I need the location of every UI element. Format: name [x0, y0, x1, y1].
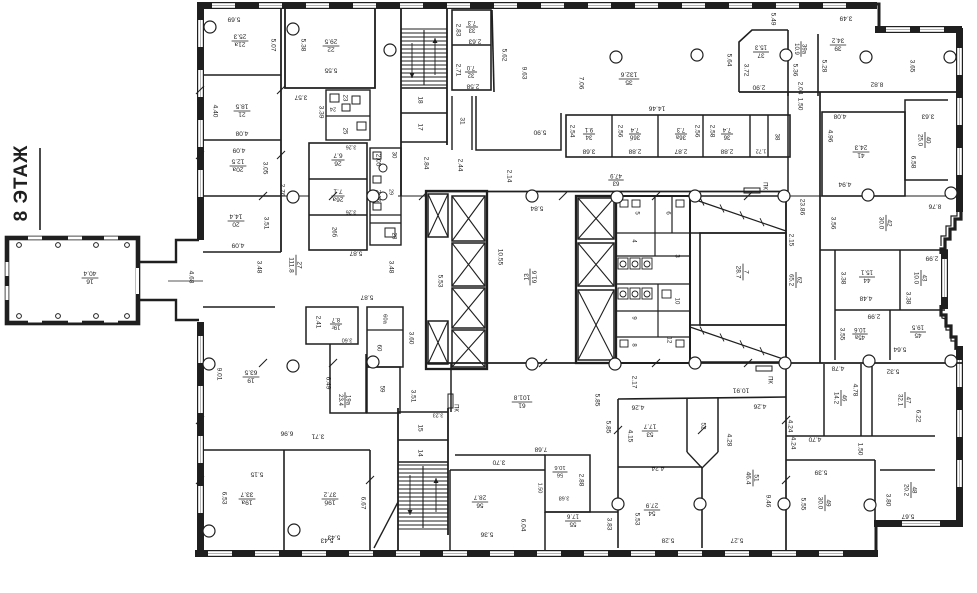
svg-text:6.22: 6.22 — [914, 410, 921, 423]
svg-text:30: 30 — [390, 152, 396, 159]
corridor 61 north wall — [426, 362, 963, 364]
svg-text:55: 55 — [569, 521, 576, 528]
svg-text:34.2: 34.2 — [831, 37, 844, 44]
svg-text:8.7: 8.7 — [331, 316, 340, 322]
svg-text:28: 28 — [390, 233, 396, 240]
room 21 label — [234, 102, 251, 117]
svg-text:3.57: 3.57 — [294, 93, 307, 100]
ramp upper outline — [690, 196, 786, 233]
outer wall left upper — [197, 8, 204, 240]
wc core walls — [616, 196, 690, 363]
svg-text:5.87: 5.87 — [349, 249, 362, 256]
svg-text:25.3: 25.3 — [233, 32, 246, 39]
rooms 26 block walls — [309, 143, 367, 250]
svg-text:36а: 36а — [675, 134, 686, 140]
svg-text:25.0: 25.0 — [917, 134, 924, 147]
svg-text:28.7: 28.7 — [473, 494, 486, 501]
annex room 16 column dots — [17, 243, 130, 319]
svg-text:35: 35 — [625, 79, 633, 86]
svg-text:59: 59 — [378, 386, 385, 393]
elevator shaft L1 — [428, 194, 448, 237]
room 49 label — [817, 495, 832, 511]
svg-text:23: 23 — [341, 95, 347, 102]
svg-text:32: 32 — [467, 72, 474, 78]
svg-text:4.09: 4.09 — [232, 146, 245, 153]
corridor 61 label — [512, 393, 532, 408]
svg-text:111.8: 111.8 — [287, 257, 294, 273]
svg-text:26: 26 — [334, 160, 342, 167]
svg-text:3.39: 3.39 — [317, 106, 324, 119]
svg-text:6.58: 6.58 — [909, 156, 916, 169]
outer wall right recess — [941, 250, 948, 309]
svg-text:43: 43 — [921, 275, 928, 282]
passage lower wall — [138, 300, 199, 320]
outer wall top — [197, 2, 877, 9]
svg-text:5.49: 5.49 — [769, 13, 776, 26]
svg-text:5.36: 5.36 — [791, 64, 798, 77]
svg-text:5.87: 5.87 — [360, 293, 373, 300]
room 22 walls — [285, 8, 375, 88]
outer wall sawtooth upper — [941, 212, 961, 254]
room 19 label — [243, 368, 260, 383]
room 19g label — [330, 316, 342, 330]
svg-text:2.88: 2.88 — [720, 147, 733, 154]
svg-text:10.6: 10.6 — [554, 464, 565, 470]
svg-text:7: 7 — [743, 270, 750, 274]
room 19b label — [322, 490, 339, 506]
room 47 label — [897, 392, 912, 408]
svg-text:26а: 26а — [332, 196, 343, 203]
outer wall bottom-right step — [875, 523, 878, 552]
outer wall top right section — [875, 26, 962, 33]
room 36a label — [675, 126, 687, 140]
room 21a label — [232, 32, 249, 47]
svg-text:2.99: 2.99 — [925, 254, 938, 261]
svg-text:17.7: 17.7 — [643, 423, 656, 430]
svg-text:9.01: 9.01 — [215, 368, 222, 381]
svg-text:ПК: ПК — [766, 376, 772, 384]
svg-text:2.41: 2.41 — [314, 316, 321, 329]
room 53 label — [642, 423, 658, 438]
elevator shaft L4 — [452, 288, 485, 328]
svg-text:7.1: 7.1 — [333, 187, 342, 194]
ramp lower outline — [690, 325, 786, 362]
svg-text:7.4: 7.4 — [630, 126, 639, 132]
svg-text:4.70: 4.70 — [808, 435, 821, 442]
svg-text:21а: 21а — [234, 41, 245, 48]
svg-text:6.04: 6.04 — [519, 519, 526, 532]
room 58 walls — [545, 455, 590, 512]
svg-text:3.70: 3.70 — [492, 458, 505, 465]
svg-text:10.55: 10.55 — [496, 249, 503, 266]
svg-text:25: 25 — [341, 128, 347, 135]
wc stalls upper — [618, 258, 652, 269]
floor title 8 ETAZh — [11, 145, 40, 230]
room 58 label — [553, 464, 568, 478]
room 49 walls — [786, 459, 875, 461]
svg-text:4.24: 4.24 — [786, 420, 793, 433]
rooms 23-25 walls — [326, 90, 370, 140]
room 18 walls — [401, 87, 447, 89]
svg-text:ПК: ПК — [761, 182, 767, 190]
svg-text:63.5: 63.5 — [244, 368, 257, 375]
svg-text:54: 54 — [648, 510, 656, 517]
svg-text:2.54: 2.54 — [568, 125, 575, 138]
svg-text:1.50: 1.50 — [537, 483, 543, 494]
room 16 label — [82, 269, 99, 284]
lobby 13 label — [523, 269, 538, 286]
room 52 walls — [687, 397, 718, 468]
svg-text:132.6: 132.6 — [620, 70, 637, 77]
room 19a33 label — [239, 490, 256, 505]
room 56 label — [472, 494, 488, 509]
room 26a label — [331, 187, 344, 202]
svg-text:19.5: 19.5 — [911, 324, 924, 331]
svg-text:23.86: 23.86 — [798, 199, 805, 216]
svg-text:5.84: 5.84 — [530, 204, 543, 211]
elevator shaft L2 — [452, 196, 485, 241]
svg-text:6.49: 6.49 — [324, 377, 331, 390]
svg-text:2.90: 2.90 — [752, 83, 765, 90]
svg-text:6.7: 6.7 — [333, 151, 342, 158]
rooms 21a-20 east wall — [280, 8, 282, 252]
svg-text:2.14: 2.14 — [505, 170, 512, 183]
svg-text:40: 40 — [925, 137, 932, 144]
rooms 29-30 walls — [370, 148, 401, 245]
elevator shaft L3 — [452, 243, 485, 286]
svg-text:13: 13 — [523, 273, 530, 281]
svg-text:3.55: 3.55 — [838, 328, 845, 341]
corridor 62 west wall — [785, 196, 787, 363]
room 17 walls — [401, 141, 447, 143]
svg-text:3.72: 3.72 — [742, 64, 749, 77]
svg-text:5.07: 5.07 — [269, 39, 276, 52]
room 39 label — [830, 37, 846, 52]
room 56 walls — [449, 470, 451, 550]
room 48 label — [903, 482, 918, 498]
svg-text:44: 44 — [863, 277, 870, 284]
svg-text:56: 56 — [476, 502, 484, 509]
rooms 34-38 walls — [566, 115, 790, 157]
svg-text:56: 56 — [557, 472, 563, 478]
svg-text:3.26: 3.26 — [346, 144, 357, 150]
svg-text:10.0: 10.0 — [913, 272, 920, 285]
svg-text:14.4: 14.4 — [229, 212, 242, 219]
outer wall sawtooth lower — [941, 305, 961, 348]
room 26 label — [331, 151, 344, 166]
room 19g walls — [306, 307, 358, 344]
svg-text:2.87: 2.87 — [674, 147, 687, 154]
svg-text:19: 19 — [247, 377, 255, 384]
room 41 walls — [822, 112, 905, 196]
ramp upper diagonal — [690, 198, 786, 231]
elevator bank east walls — [576, 196, 616, 363]
svg-text:36: 36 — [723, 134, 730, 140]
svg-text:5.85: 5.85 — [593, 394, 600, 407]
room 21a south wall — [203, 74, 281, 76]
svg-text:4.48: 4.48 — [859, 294, 872, 301]
svg-text:3.68: 3.68 — [559, 495, 570, 501]
svg-text:2.58: 2.58 — [708, 125, 715, 138]
room 55 label — [565, 513, 581, 528]
svg-text:5.53: 5.53 — [633, 513, 640, 526]
svg-text:9.46: 9.46 — [764, 495, 771, 508]
svg-text:60: 60 — [375, 345, 381, 352]
svg-text:4.24: 4.24 — [789, 437, 796, 450]
svg-text:22: 22 — [327, 46, 335, 53]
wc sinks — [620, 200, 684, 347]
svg-text:23.4: 23.4 — [337, 394, 343, 406]
svg-text:9.63: 9.63 — [520, 67, 527, 80]
svg-text:4.26: 4.26 — [753, 402, 766, 409]
svg-text:2.99: 2.99 — [867, 312, 880, 319]
svg-text:20а: 20а — [232, 166, 243, 173]
svg-text:7.3: 7.3 — [467, 19, 476, 25]
svg-text:33: 33 — [468, 27, 475, 33]
svg-text:5.90: 5.90 — [533, 128, 546, 135]
staircase upper arrows — [410, 38, 438, 78]
svg-text:2.71: 2.71 — [454, 64, 461, 77]
elevator shaft R2 — [578, 243, 614, 286]
room 32 label — [465, 64, 477, 78]
outer wall top-right step — [872, 4, 879, 28]
svg-text:4.24: 4.24 — [651, 464, 664, 471]
outer wall bottom right section — [874, 520, 963, 527]
svg-text:49: 49 — [825, 499, 832, 507]
room 53 walls — [617, 399, 619, 548]
svg-text:5.69: 5.69 — [227, 15, 240, 22]
svg-text:51: 51 — [753, 474, 760, 482]
outer wall bottom — [195, 550, 878, 557]
svg-text:3.26: 3.26 — [346, 209, 357, 215]
room 37 walls — [739, 30, 788, 92]
svg-text:17: 17 — [416, 123, 423, 131]
svg-text:45: 45 — [914, 332, 921, 339]
svg-text:2.84: 2.84 — [422, 157, 429, 170]
svg-text:30.0: 30.0 — [878, 217, 885, 230]
svg-text:3.51: 3.51 — [262, 217, 269, 230]
staircase lower treads — [398, 465, 448, 529]
svg-text:4.08: 4.08 — [833, 112, 846, 119]
svg-text:31: 31 — [458, 117, 465, 125]
room 20 label — [228, 212, 245, 227]
svg-text:5.32: 5.32 — [886, 367, 899, 374]
svg-text:3.65: 3.65 — [908, 60, 915, 73]
svg-text:3.05: 3.05 — [261, 162, 268, 175]
corridor wall left of PK — [450, 363, 452, 412]
svg-text:53: 53 — [646, 431, 654, 438]
svg-text:27: 27 — [296, 261, 303, 269]
svg-text:65.2: 65.2 — [788, 274, 795, 287]
svg-text:10.6: 10.6 — [854, 326, 866, 332]
svg-text:15: 15 — [416, 424, 423, 432]
svg-text:3.48: 3.48 — [387, 261, 394, 274]
svg-text:5.43: 5.43 — [320, 536, 333, 543]
room 40 label — [917, 132, 932, 148]
rooms 33-32 walls — [452, 10, 491, 90]
svg-text:4.40: 4.40 — [211, 105, 218, 118]
svg-text:5.55: 5.55 — [324, 66, 337, 73]
svg-text:5.28: 5.28 — [661, 536, 674, 543]
svg-text:8 ЭТАЖ: 8 ЭТАЖ — [11, 145, 32, 222]
elevator shaft R1 — [578, 198, 614, 239]
room 43 label — [913, 270, 928, 286]
rooms 53-51 north wall — [618, 397, 786, 399]
corridor 27 label — [287, 255, 302, 275]
passage upper wall — [138, 240, 199, 262]
svg-text:9.1: 9.1 — [584, 126, 593, 132]
svg-text:3.68: 3.68 — [582, 147, 595, 154]
room 51 label — [744, 470, 759, 487]
corridor 63 south wall — [426, 191, 786, 193]
svg-text:4.08: 4.08 — [235, 129, 248, 136]
svg-text:39а: 39а — [801, 44, 807, 55]
axis tick marks — [196, 86, 790, 484]
svg-text:3.60: 3.60 — [407, 332, 414, 345]
rooms 46-47 walls — [786, 364, 935, 436]
svg-text:29.5: 29.5 — [324, 37, 337, 44]
svg-text:2.88: 2.88 — [628, 147, 641, 154]
svg-text:5.67: 5.67 — [901, 512, 914, 519]
svg-text:20: 20 — [232, 221, 240, 228]
room 19 north wall — [203, 306, 275, 308]
svg-text:19а: 19а — [345, 395, 351, 406]
room 20a label — [230, 157, 247, 172]
svg-text:7.68: 7.68 — [534, 445, 547, 452]
svg-text:101.8: 101.8 — [513, 393, 530, 400]
svg-text:19б: 19б — [324, 499, 335, 507]
svg-text:47.9: 47.9 — [610, 172, 622, 178]
svg-text:3.38: 3.38 — [904, 292, 911, 305]
room 54 label — [644, 502, 660, 517]
svg-text:7.0: 7.0 — [466, 64, 475, 70]
svg-text:63: 63 — [612, 180, 619, 186]
room 40 walls — [905, 100, 948, 180]
svg-text:4.96: 4.96 — [826, 130, 833, 143]
axis line B — [203, 195, 309, 197]
svg-text:61: 61 — [518, 402, 526, 409]
svg-text:4.94: 4.94 — [838, 180, 851, 187]
svg-text:30.0: 30.0 — [817, 497, 824, 510]
svg-text:5.28: 5.28 — [820, 60, 827, 73]
wc stalls lower — [618, 288, 652, 299]
svg-text:10.91: 10.91 — [732, 386, 749, 393]
outer wall left lower — [197, 322, 204, 552]
svg-text:3.48: 3.48 — [255, 261, 262, 274]
svg-text:15.3: 15.3 — [754, 44, 767, 51]
rooms 44-43 walls — [835, 250, 945, 310]
corridor 31 walls — [471, 96, 473, 150]
room 19a23 label — [337, 392, 351, 407]
svg-text:26б: 26б — [330, 227, 336, 238]
room 55 walls — [545, 511, 618, 513]
room 35 west wall — [492, 10, 494, 92]
room 33 label — [466, 19, 478, 33]
svg-text:46: 46 — [841, 395, 848, 402]
room 37 label — [753, 44, 769, 59]
elevator shaft L5 — [452, 330, 485, 367]
svg-text:8.76: 8.76 — [928, 202, 941, 209]
svg-text:21: 21 — [238, 111, 246, 118]
room 20a south wall — [203, 195, 281, 197]
svg-text:60а: 60а — [381, 314, 387, 324]
svg-text:14: 14 — [416, 449, 423, 457]
svg-text:6.67: 6.67 — [359, 497, 366, 510]
svg-text:17.6: 17.6 — [566, 513, 579, 520]
svg-text:61.6: 61.6 — [532, 270, 539, 283]
staircase upper treads — [401, 29, 447, 85]
svg-text:5.64: 5.64 — [725, 54, 732, 67]
svg-text:2.56: 2.56 — [616, 125, 623, 138]
svg-text:62: 62 — [796, 277, 803, 284]
svg-text:4.15: 4.15 — [626, 430, 633, 443]
svg-text:47: 47 — [905, 397, 912, 404]
elevator shaft L6 — [428, 321, 448, 364]
svg-text:3.49: 3.49 — [839, 14, 852, 21]
svg-text:24: 24 — [330, 106, 336, 112]
svg-text:14.2: 14.2 — [833, 392, 840, 405]
svg-text:2.76: 2.76 — [278, 184, 285, 197]
svg-text:2.44: 2.44 — [456, 159, 463, 172]
svg-text:14.46: 14.46 — [648, 104, 665, 111]
svg-text:4.78: 4.78 — [831, 364, 844, 371]
svg-text:3.80: 3.80 — [884, 494, 891, 507]
svg-text:3.83: 3.83 — [605, 518, 612, 531]
room 36b label — [629, 126, 641, 140]
svg-text:3.51: 3.51 — [409, 390, 416, 403]
svg-text:2.15: 2.15 — [787, 234, 794, 247]
outer wall right upper — [956, 28, 963, 212]
svg-text:19г: 19г — [331, 324, 341, 330]
svg-text:1.50: 1.50 — [796, 98, 803, 111]
svg-text:3.71: 3.71 — [311, 432, 324, 439]
svg-text:7.06: 7.06 — [577, 77, 584, 90]
svg-text:5.55: 5.55 — [799, 498, 806, 511]
room 41 label — [853, 143, 870, 158]
svg-text:5.85: 5.85 — [604, 421, 611, 434]
svg-text:34: 34 — [585, 134, 592, 140]
svg-text:24.3: 24.3 — [854, 143, 867, 150]
elevator shaft R3 — [578, 290, 614, 360]
lower stair diagonal wall — [374, 502, 398, 548]
room 19a23 walls — [330, 344, 366, 413]
svg-text:4.28: 4.28 — [725, 434, 732, 447]
room 7 walls — [700, 233, 786, 325]
svg-text:5.38: 5.38 — [299, 39, 306, 52]
svg-text:6.53: 6.53 — [220, 492, 227, 505]
room 42 south wall — [820, 249, 948, 251]
svg-text:4.68: 4.68 — [187, 271, 194, 284]
svg-text:2.58: 2.58 — [466, 82, 479, 89]
room 45 label — [910, 324, 926, 339]
svg-text:4.09: 4.09 — [231, 241, 244, 248]
room 20 south wall — [203, 251, 281, 253]
room 36 label — [721, 126, 733, 140]
room 42 label — [878, 215, 893, 231]
svg-text:37: 37 — [757, 52, 764, 59]
svg-text:3.38: 3.38 — [839, 272, 846, 285]
svg-text:18: 18 — [416, 96, 423, 104]
svg-text:33.7: 33.7 — [240, 490, 253, 497]
svg-text:3.23: 3.23 — [433, 412, 444, 418]
room 21 south wall — [203, 139, 281, 141]
svg-text:3.63: 3.63 — [921, 112, 934, 119]
svg-text:42: 42 — [886, 219, 893, 227]
svg-text:7.3: 7.3 — [676, 126, 685, 132]
room 54 walls — [701, 467, 703, 548]
svg-text:3.60: 3.60 — [342, 337, 353, 343]
svg-text:32.1: 32.1 — [897, 394, 904, 407]
